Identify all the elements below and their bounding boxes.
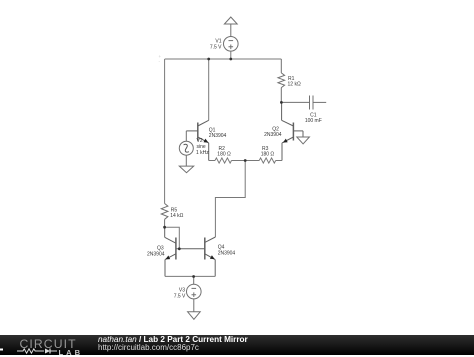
label C1 100 mF [305, 112, 322, 124]
node bottom rail / V3 [192, 275, 195, 278]
node base rail junction [178, 247, 181, 250]
svg-text:180 Ω: 180 Ω [217, 151, 231, 157]
svg-text:7.5 V: 7.5 V [174, 293, 186, 299]
wire Q1 emitter to R2 [209, 160, 215, 162]
CircuitLab logo wordmark [20, 338, 77, 350]
transistor Q3 2N3904 [165, 227, 205, 276]
svg-text:2N3904: 2N3904 [218, 250, 236, 256]
ground (V2) [179, 166, 193, 173]
capacitor C1 [281, 96, 326, 110]
label R3 180 Ω [261, 146, 275, 158]
wire bottom rail [165, 275, 215, 277]
transistor Q2 2N3904 [282, 102, 303, 160]
label Q4 2N3904 [218, 244, 236, 256]
svg-text:2N3904: 2N3904 [147, 251, 165, 257]
node R2 / R3 / mirror [244, 159, 247, 162]
resistor R3 [259, 158, 276, 163]
label V2 sine 1 kHz [196, 138, 209, 156]
svg-text:Q4: Q4 [218, 244, 225, 250]
node VCC top rail wire [165, 58, 282, 60]
wire node to R3 [245, 160, 259, 162]
label V1 [210, 39, 222, 51]
voltage source V3 7.5 V [187, 276, 202, 311]
transistor Q1 2N3904 [186, 120, 208, 160]
voltage source V2 sine [179, 131, 193, 166]
label V3 7.5 V [174, 288, 186, 300]
wire diode-connect (R5 node to base rail) [165, 227, 180, 249]
wire left column (top rail to R5) [164, 59, 166, 204]
svg-text:180 Ω: 180 Ω [261, 151, 275, 157]
svg-text:14 kΩ: 14 kΩ [170, 213, 183, 219]
label R2 180 Ω [217, 146, 231, 158]
wire R2 to node [232, 160, 246, 162]
label Q2 2N3904 [264, 127, 282, 139]
wire jog node to Q4 collector [215, 161, 245, 238]
node R5 / Q3 collector [163, 226, 166, 229]
svg-text:1 kHz: 1 kHz [196, 150, 209, 156]
node Q1 collector / top rail [207, 58, 210, 61]
resistor R1 [278, 59, 285, 102]
resistor R2 [215, 158, 232, 163]
svg-text:100 mF: 100 mF [305, 118, 322, 124]
node junction dots [163, 58, 283, 278]
label Q3 2N3904 [147, 246, 165, 258]
svg-text:12 kΩ: 12 kΩ [288, 82, 301, 88]
svg-text:V2: V2 [197, 138, 203, 144]
node R1 / C1 / Q2 collector [280, 101, 283, 104]
svg-text:-: - [159, 59, 161, 64]
wire V1 to rail [230, 51, 232, 59]
svg-text:7.5 V: 7.5 V [210, 44, 222, 50]
transistor Q4 2N3904 [205, 237, 216, 276]
emitter rail wires [209, 158, 282, 163]
voltage source V1 7.5 V [224, 17, 239, 51]
label R1 12 kΩ [288, 76, 301, 88]
wire R3 to Q2 emitter [276, 160, 282, 162]
label R5 14 kΩ [170, 207, 183, 219]
svg-text:2N3904: 2N3904 [264, 132, 282, 138]
ground (Q2 base) [297, 137, 310, 144]
label Q1 2N3904 [209, 127, 227, 139]
wire Q1 collector riser [208, 59, 210, 120]
resistor R5 [161, 204, 168, 228]
ground (V3) [188, 312, 201, 320]
svg-text:2N3904: 2N3904 [209, 133, 227, 139]
faint node marks top left [159, 54, 162, 64]
node V1 / top rail [229, 58, 232, 61]
logo schematic squiggle [0, 335, 96, 355]
